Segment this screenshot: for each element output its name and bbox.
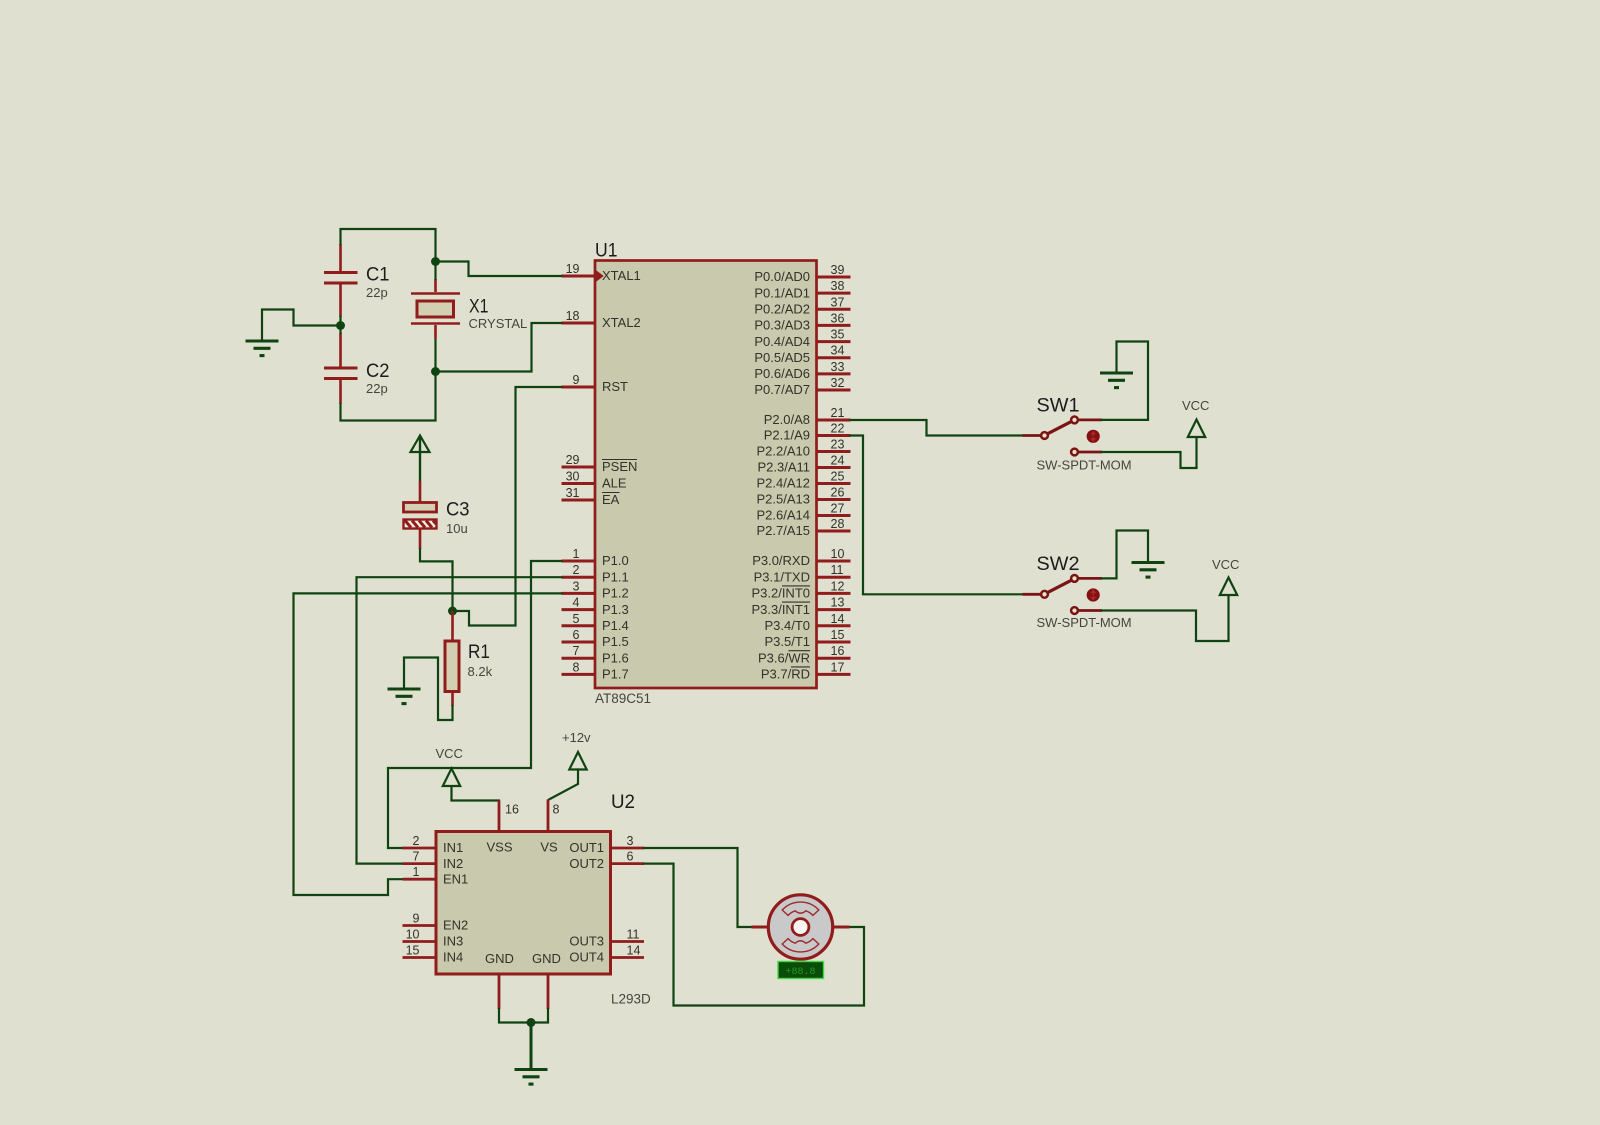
- U2 pin 3 (OUT1): [569, 834, 644, 855]
- junction node C1-C2: [336, 321, 345, 330]
- svg-text:EN1: EN1: [443, 871, 468, 886]
- svg-text:15: 15: [406, 944, 420, 958]
- value 10u: [446, 521, 468, 536]
- U1 pin 1 (P1.0): [562, 547, 629, 568]
- wire SW2 NO throw to ground: [1078, 531, 1148, 579]
- U2 pin 7 (IN2): [403, 850, 464, 871]
- wire RST to R1/C3 node: [453, 387, 562, 626]
- svg-text:8: 8: [553, 803, 560, 817]
- svg-text:VSS: VSS: [486, 840, 512, 855]
- svg-text:11: 11: [627, 928, 640, 942]
- svg-text:2: 2: [413, 834, 420, 848]
- U1 pin 17 (P3.7/RD): [761, 660, 851, 681]
- svg-text:SW2: SW2: [1037, 553, 1080, 575]
- value 8.2k: [468, 664, 493, 679]
- capacitor C3 (polarized 10u): [404, 481, 437, 549]
- svg-text:P0.0/AD0: P0.0/AD0: [754, 269, 810, 284]
- svg-text:10: 10: [406, 928, 420, 942]
- wire R1 bottom to ground: [404, 658, 453, 721]
- wire P2.1 to SW2 common: [851, 436, 1023, 595]
- svg-text:P2.2/A10: P2.2/A10: [757, 444, 811, 459]
- svg-text:X1: X1: [469, 296, 489, 318]
- wire C1-C2 junction to ground: [262, 310, 341, 342]
- U1 pin 29 (PSEN): [562, 453, 638, 474]
- svg-text:P3.2/INT0: P3.2/INT0: [751, 586, 810, 601]
- U1 pin 27 (P2.6/A14): [757, 502, 851, 523]
- junction node GND: [527, 1018, 536, 1027]
- svg-text:38: 38: [831, 279, 845, 293]
- U1 pin 13 (P3.3/INT1): [751, 596, 850, 617]
- U1 pin 37 (P0.2/AD2): [754, 295, 850, 316]
- switch SW1 common lead: [1023, 434, 1041, 437]
- svg-text:OUT2: OUT2: [569, 856, 604, 871]
- label X1: [469, 296, 489, 318]
- U1 pin 6 (P1.5): [562, 628, 629, 649]
- wire SW2 NC throw to VCC: [1078, 611, 1228, 642]
- U1 pin 38 (P0.1/AD1): [754, 279, 850, 300]
- svg-text:P2.7/A15: P2.7/A15: [757, 523, 811, 538]
- value AT89C51: [595, 691, 651, 706]
- value CRYSTAL: [469, 316, 528, 331]
- svg-text:2: 2: [573, 563, 580, 577]
- svg-text:R1: R1: [468, 641, 490, 663]
- wire crystal bottom lead: [434, 339, 436, 372]
- svg-text:29: 29: [566, 453, 580, 467]
- svg-text:10u: 10u: [446, 521, 468, 536]
- label SW1: [1037, 395, 1080, 417]
- svg-text:P1.0: P1.0: [602, 553, 629, 568]
- switch SW1 button: [1087, 430, 1100, 443]
- svg-text:SW1: SW1: [1037, 395, 1080, 417]
- value SW-SPDT-MOM (SW2): [1037, 615, 1132, 630]
- U1 pin 33 (P0.6/AD6): [754, 360, 850, 381]
- svg-text:U2: U2: [611, 791, 635, 813]
- svg-text:P1.6: P1.6: [602, 650, 629, 665]
- U1 pin 24 (P2.3/A11): [757, 454, 850, 475]
- U1 pin 5 (P1.4): [562, 612, 629, 633]
- U2 pin 9 (EN2): [403, 912, 469, 933]
- svg-text:26: 26: [831, 486, 845, 500]
- switch SW1: [1041, 417, 1078, 456]
- svg-text:9: 9: [413, 912, 420, 926]
- label R1: [468, 641, 490, 663]
- power +12v arrow: [549, 752, 587, 800]
- U2 pin 2 (IN1): [403, 834, 464, 855]
- svg-text:P2.5/A13: P2.5/A13: [757, 492, 811, 507]
- svg-text:RST: RST: [602, 379, 628, 394]
- svg-text:11: 11: [831, 563, 844, 577]
- svg-text:P0.4/AD4: P0.4/AD4: [754, 334, 810, 349]
- svg-text:7: 7: [413, 850, 420, 864]
- svg-text:IN2: IN2: [443, 856, 463, 871]
- svg-text:P2.6/A14: P2.6/A14: [757, 508, 811, 523]
- U1 pin 36 (P0.3/AD3): [754, 311, 850, 332]
- svg-text:IN4: IN4: [443, 950, 463, 965]
- U2 pin 11 (OUT3): [569, 928, 644, 949]
- capacitor C1: [324, 244, 358, 317]
- wire to XTAL2 pin: [436, 323, 562, 372]
- wire GND pins to ground: [499, 1009, 548, 1069]
- label C1: [366, 264, 390, 286]
- power arrow above C3: [411, 436, 430, 482]
- U1 pin 10 (P3.0/RXD): [752, 547, 850, 568]
- svg-text:P2.1/A9: P2.1/A9: [764, 428, 810, 443]
- svg-text:VS: VS: [540, 840, 558, 855]
- crystal X1: [411, 279, 460, 339]
- ground (below U2): [515, 1070, 548, 1085]
- U1 pin 15 (P3.5/T1): [764, 628, 850, 649]
- junction node crystal top: [431, 257, 440, 266]
- ground (below R1): [388, 689, 421, 704]
- svg-text:IN1: IN1: [443, 840, 463, 855]
- resistor R1: [445, 611, 459, 706]
- svg-text:C1: C1: [366, 264, 390, 286]
- svg-text:VCC: VCC: [1182, 398, 1209, 413]
- wire crystal top lead: [434, 262, 436, 281]
- motor rpm display +88.8: [778, 962, 824, 979]
- svg-text:9: 9: [573, 373, 580, 387]
- U1 pin 11 (P3.1/TXD): [754, 563, 851, 584]
- label SW2: [1037, 553, 1080, 575]
- U1 pin 14 (P3.4/T0): [764, 612, 850, 633]
- power VCC arrow (U2): [443, 769, 460, 801]
- svg-text:19: 19: [566, 262, 580, 276]
- svg-text:25: 25: [831, 470, 845, 484]
- ground (SW2): [1132, 563, 1165, 578]
- U1 pin 19 (XTAL1): [562, 262, 641, 283]
- svg-text:15: 15: [831, 628, 845, 642]
- switch SW2 common lead: [1023, 593, 1041, 596]
- svg-text:6: 6: [627, 850, 634, 864]
- svg-text:AT89C51: AT89C51: [595, 691, 651, 706]
- svg-text:4: 4: [573, 596, 580, 610]
- U2 pin 14 (OUT4): [569, 944, 644, 965]
- svg-text:16: 16: [831, 644, 845, 658]
- U2 pin 10 (IN3): [403, 928, 464, 949]
- svg-text:6: 6: [573, 628, 580, 642]
- svg-text:OUT4: OUT4: [569, 950, 604, 965]
- svg-text:P2.3/A11: P2.3/A11: [757, 460, 810, 475]
- U1 pin 12 (P3.2/INT0): [751, 579, 850, 600]
- svg-text:L293D: L293D: [611, 992, 651, 1007]
- U1 pin 34 (P0.5/AD5): [754, 344, 850, 365]
- svg-text:CRYSTAL: CRYSTAL: [469, 316, 528, 331]
- U2 pin 15 (IN4): [403, 944, 464, 965]
- svg-text:31: 31: [566, 486, 580, 500]
- U2 pin 8 (VS): [540, 800, 559, 855]
- label VCC (U2): [436, 746, 463, 761]
- U2 pin 6 (OUT2): [569, 850, 644, 871]
- svg-text:P1.7: P1.7: [602, 667, 629, 682]
- svg-text:8: 8: [573, 660, 580, 674]
- wire C3 bottom to R1 top node: [420, 549, 453, 611]
- svg-text:18: 18: [566, 309, 580, 323]
- value SW-SPDT-MOM (SW1): [1037, 458, 1132, 473]
- U1 pin 28 (P2.7/A15): [757, 517, 851, 538]
- U1 pin 4 (P1.3): [562, 596, 629, 617]
- svg-text:28: 28: [831, 517, 845, 531]
- svg-text:36: 36: [831, 311, 845, 325]
- svg-text:22p: 22p: [366, 285, 388, 300]
- svg-text:13: 13: [831, 596, 845, 610]
- svg-text:GND: GND: [532, 951, 561, 966]
- svg-text:37: 37: [831, 295, 845, 309]
- U1 pin 16 (P3.6/WR): [758, 644, 851, 665]
- svg-text:3: 3: [573, 579, 580, 593]
- wire P1.2 to EN1: [294, 593, 562, 895]
- svg-text:+88.8: +88.8: [785, 967, 815, 978]
- svg-text:XTAL2: XTAL2: [602, 315, 641, 330]
- svg-text:U1: U1: [595, 240, 618, 262]
- svg-text:P0.6/AD6: P0.6/AD6: [754, 366, 810, 381]
- U1 pin 30 (ALE): [562, 470, 627, 491]
- svg-text:14: 14: [831, 612, 845, 626]
- svg-text:P2.0/A8: P2.0/A8: [764, 412, 810, 427]
- U1 pin 39 (P0.0/AD0): [754, 263, 850, 284]
- svg-text:22: 22: [831, 422, 845, 436]
- svg-text:P1.4: P1.4: [602, 618, 629, 633]
- motor body: [768, 895, 832, 959]
- U1 pin 3 (P1.2): [562, 579, 629, 600]
- U2 pin 1 (EN1): [403, 865, 469, 886]
- svg-text:5: 5: [573, 612, 580, 626]
- svg-text:7: 7: [573, 644, 580, 658]
- svg-text:P1.3: P1.3: [602, 602, 629, 617]
- U1 pin 26 (P2.5/A13): [757, 486, 851, 507]
- power VCC arrow (SW2): [1220, 578, 1237, 642]
- svg-text:16: 16: [505, 803, 519, 817]
- power VCC arrow (SW1): [1188, 420, 1205, 469]
- svg-text:+12v: +12v: [562, 730, 591, 745]
- motor driver U2 body: [436, 832, 611, 975]
- wire to XTAL1 pin: [436, 262, 562, 277]
- microcontroller U1 body: [595, 261, 817, 689]
- wire SW1 NO throw to ground: [1078, 342, 1148, 420]
- svg-text:P3.7/RD: P3.7/RD: [761, 667, 810, 682]
- svg-text:P1.2: P1.2: [602, 586, 629, 601]
- svg-text:P3.3/INT1: P3.3/INT1: [751, 602, 810, 617]
- U1 pin 23 (P2.2/A10): [757, 438, 851, 459]
- svg-text:P0.2/AD2: P0.2/AD2: [754, 302, 810, 317]
- motor pin stubs: [752, 926, 850, 929]
- svg-text:IN3: IN3: [443, 934, 463, 949]
- U1 pin 18 (XTAL2): [562, 309, 641, 330]
- svg-text:P2.4/A12: P2.4/A12: [757, 476, 811, 491]
- wire OUT2 to motor right: [644, 864, 864, 1006]
- svg-text:39: 39: [831, 263, 845, 277]
- svg-text:P3.0/RXD: P3.0/RXD: [752, 553, 810, 568]
- U1 pin 2 (P1.1): [562, 563, 629, 584]
- label +12v: [562, 730, 591, 745]
- label VCC (SW2): [1212, 557, 1239, 572]
- switch SW2: [1041, 575, 1078, 614]
- label VCC (SW1): [1182, 398, 1209, 413]
- svg-text:P3.1/TXD: P3.1/TXD: [754, 569, 810, 584]
- wire P2.0 to SW1 common: [851, 420, 1023, 436]
- svg-text:24: 24: [831, 454, 845, 468]
- svg-text:P0.5/AD5: P0.5/AD5: [754, 350, 810, 365]
- svg-text:PSEN: PSEN: [602, 459, 637, 474]
- svg-text:1: 1: [573, 547, 580, 561]
- svg-text:SW-SPDT-MOM: SW-SPDT-MOM: [1037, 615, 1132, 630]
- svg-text:OUT3: OUT3: [569, 934, 604, 949]
- svg-text:VCC: VCC: [1212, 557, 1239, 572]
- U1 pin 31 (EA): [562, 486, 620, 507]
- svg-text:OUT1: OUT1: [569, 840, 604, 855]
- U1 pin 7 (P1.6): [562, 644, 629, 665]
- svg-text:17: 17: [831, 660, 845, 674]
- U2 pin GND (left): [485, 951, 514, 1009]
- U2 pin 16 (VSS): [486, 801, 518, 855]
- svg-text:23: 23: [831, 438, 845, 452]
- wire OUT1 to motor left: [644, 848, 752, 927]
- svg-text:32: 32: [831, 376, 845, 390]
- value 22p (C1): [366, 285, 388, 300]
- wire SW1 NC throw to VCC: [1078, 452, 1196, 468]
- svg-text:SW-SPDT-MOM: SW-SPDT-MOM: [1037, 458, 1132, 473]
- label C2: [366, 360, 390, 382]
- label U1: [595, 240, 618, 262]
- U1 pin 21 (P2.0/A8): [764, 406, 851, 427]
- svg-text:P0.3/AD3: P0.3/AD3: [754, 318, 810, 333]
- svg-text:P3.4/T0: P3.4/T0: [764, 618, 810, 633]
- svg-text:VCC: VCC: [436, 746, 463, 761]
- U1 pin 25 (P2.4/A12): [757, 470, 851, 491]
- svg-text:33: 33: [831, 360, 845, 374]
- ground (left of C1/C2): [246, 341, 279, 356]
- svg-text:21: 21: [831, 406, 845, 420]
- svg-text:ALE: ALE: [602, 476, 627, 491]
- junction node crystal bottom: [431, 367, 440, 376]
- label U2: [611, 791, 635, 813]
- switch SW2 button: [1087, 588, 1100, 601]
- value 22p (C2): [366, 381, 388, 396]
- svg-text:P3.6/WR: P3.6/WR: [758, 650, 810, 665]
- svg-text:8.2k: 8.2k: [468, 664, 493, 679]
- svg-text:XTAL1: XTAL1: [602, 268, 641, 283]
- wire VCC to VSS pin 16: [452, 799, 500, 801]
- ground (SW1): [1100, 373, 1133, 388]
- svg-text:34: 34: [831, 344, 845, 358]
- U1 pin 22 (P2.1/A9): [764, 422, 851, 443]
- svg-text:P0.7/AD7: P0.7/AD7: [754, 382, 810, 397]
- svg-text:GND: GND: [485, 951, 514, 966]
- svg-text:27: 27: [831, 502, 845, 516]
- svg-text:C3: C3: [446, 499, 470, 521]
- svg-text:1: 1: [413, 865, 420, 879]
- svg-text:C2: C2: [366, 360, 390, 382]
- svg-text:P3.5/T1: P3.5/T1: [764, 634, 810, 649]
- wire C2 bottom loop: [341, 372, 436, 421]
- U1 pin 8 (P1.7): [562, 660, 629, 681]
- svg-text:3: 3: [627, 834, 634, 848]
- value L293D: [611, 992, 651, 1007]
- svg-text:EA: EA: [602, 492, 620, 507]
- U2 pin GND (right): [532, 951, 561, 1009]
- capacitor C2: [324, 333, 358, 404]
- svg-text:P1.1: P1.1: [602, 569, 629, 584]
- svg-text:30: 30: [566, 470, 580, 484]
- U1 pin 35 (P0.4/AD4): [754, 328, 850, 349]
- svg-text:EN2: EN2: [443, 918, 468, 933]
- svg-text:P0.1/AD1: P0.1/AD1: [754, 285, 810, 300]
- label C3: [446, 499, 470, 521]
- svg-text:10: 10: [831, 547, 845, 561]
- junction node R1 top: [448, 607, 457, 616]
- wire P1.0 to IN1 and VCC rail: [388, 561, 562, 848]
- svg-text:12: 12: [831, 579, 845, 593]
- svg-text:35: 35: [831, 328, 845, 342]
- svg-text:22p: 22p: [366, 381, 388, 396]
- svg-text:14: 14: [627, 944, 641, 958]
- wire XTAL1 net top loop: [341, 229, 436, 262]
- wire P1.1 to IN2: [357, 577, 562, 863]
- U1 pin 32 (P0.7/AD7): [754, 376, 850, 397]
- U1 pin 9 (RST): [562, 373, 629, 394]
- svg-text:P1.5: P1.5: [602, 634, 629, 649]
